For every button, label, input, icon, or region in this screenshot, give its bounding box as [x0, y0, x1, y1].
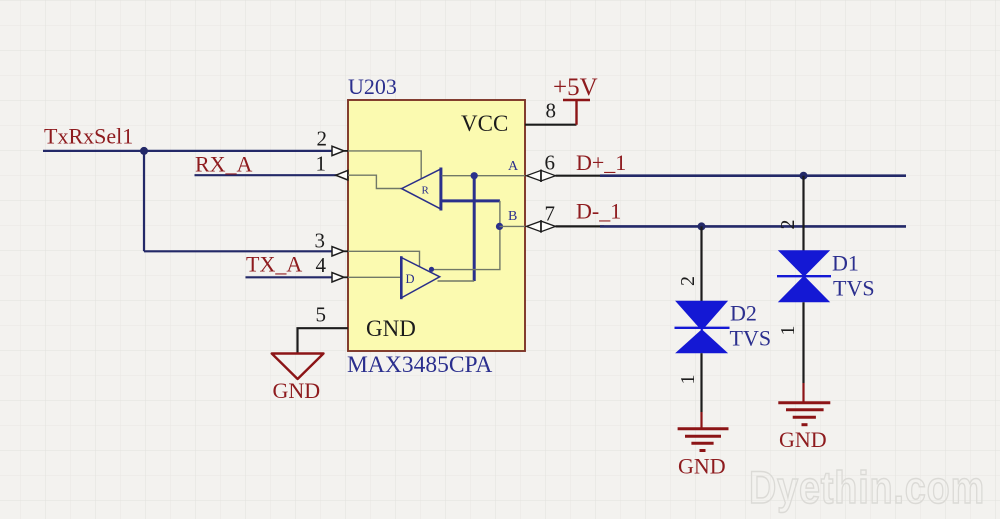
pin 3 arrow	[344, 250, 348, 252]
svg-text:+5V: +5V	[553, 74, 598, 101]
svg-text:3: 3	[315, 229, 326, 253]
junction D+ / D1	[800, 172, 808, 180]
svg-text:D2: D2	[730, 301, 757, 326]
svg-text:D: D	[406, 272, 415, 286]
diode D2 TVS body	[675, 301, 730, 353]
thick A vertical wire	[473, 176, 476, 281]
diode D1 lead top	[802, 176, 804, 251]
receiver output line (pin 1)	[348, 175, 402, 188]
D1 ground stem	[802, 383, 804, 402]
IC U203 body	[348, 100, 525, 351]
svg-text:1: 1	[677, 375, 699, 385]
svg-text:D1: D1	[832, 251, 859, 276]
svg-text:2: 2	[677, 276, 699, 286]
wire net TX_A	[246, 276, 335, 278]
junction B interior	[496, 223, 503, 230]
svg-text:GND: GND	[273, 378, 321, 403]
svg-text:2: 2	[317, 127, 328, 151]
wire net D-	[600, 225, 906, 228]
diode D1 lead bottom	[802, 302, 804, 383]
junction A interior	[471, 172, 478, 179]
svg-text:1: 1	[316, 152, 327, 176]
pin 2 arrow	[344, 150, 348, 152]
ground symbol (D1)	[778, 403, 830, 425]
ground symbol (D2)	[678, 429, 729, 451]
op-amp D (driver triangle)	[401, 256, 439, 299]
svg-text:7: 7	[545, 202, 556, 226]
pin 1 arrow	[336, 170, 348, 180]
svg-text:TVS: TVS	[730, 326, 772, 351]
svg-text:D-_1: D-_1	[576, 199, 621, 224]
svg-text:D+_1: D+_1	[576, 150, 626, 175]
junction D- / D2	[698, 222, 706, 230]
pin 6 stub	[556, 175, 605, 177]
svg-text:RX_A: RX_A	[195, 152, 253, 177]
D2 ground stem	[700, 412, 702, 428]
op-amp R (receiver triangle)	[402, 168, 441, 211]
svg-text:1: 1	[777, 326, 799, 336]
pin 7 IO arrow	[527, 220, 556, 233]
svg-text:4: 4	[316, 253, 327, 277]
svg-text:MAX3485CPA: MAX3485CPA	[347, 352, 492, 378]
svg-text:U203: U203	[348, 74, 397, 99]
pin 6 IO arrow	[527, 170, 556, 183]
svg-text:TVS: TVS	[833, 276, 875, 301]
svg-text:GND: GND	[678, 454, 726, 479]
B vertical wire	[432, 201, 500, 270]
pin 4 arrow	[344, 276, 348, 278]
svg-text:GND: GND	[779, 427, 827, 452]
node A interior line	[442, 175, 525, 177]
wire net D+	[600, 174, 906, 177]
wire TxRxSel1 branch vertical	[143, 151, 145, 251]
svg-text:VCC: VCC	[461, 111, 508, 136]
junction on TxRxSel1	[140, 147, 148, 155]
svg-text:5: 5	[316, 303, 327, 327]
svg-text:GND: GND	[366, 316, 416, 341]
pin 7 stub	[556, 225, 605, 227]
svg-text:2: 2	[777, 220, 799, 230]
driver input line (pin 4)	[348, 276, 401, 278]
pin 8 wire	[525, 124, 577, 126]
svg-text:A: A	[508, 159, 519, 174]
diode D2 lead bottom	[700, 353, 702, 412]
power symbol GND (pin 5)	[272, 354, 324, 380]
pin 5 wire	[298, 328, 349, 353]
driver enable line (pin 3)	[348, 251, 420, 266]
wire branch to pin 3	[144, 250, 334, 252]
thick R input B wire	[442, 199, 500, 202]
junction at driver top edge	[429, 267, 434, 272]
wire net TxRxSel1 horizontal	[43, 150, 334, 152]
svg-text:TX_A: TX_A	[246, 252, 302, 277]
svg-text:B: B	[508, 209, 517, 224]
receiver enable line (pin 2)	[348, 151, 421, 179]
driver output line	[438, 280, 475, 282]
svg-text:8: 8	[546, 99, 557, 123]
svg-text:6: 6	[545, 151, 556, 175]
diode D2 lead top	[700, 226, 702, 301]
svg-text:Dyethin.com: Dyethin.com	[749, 462, 985, 513]
node B interior line	[500, 225, 526, 227]
diode D1 TVS body	[777, 250, 831, 302]
svg-text:TxRxSel1: TxRxSel1	[44, 124, 133, 149]
svg-text:R: R	[422, 185, 430, 197]
wire net RX_A	[195, 174, 338, 176]
power symbol +5V bar	[563, 100, 590, 125]
